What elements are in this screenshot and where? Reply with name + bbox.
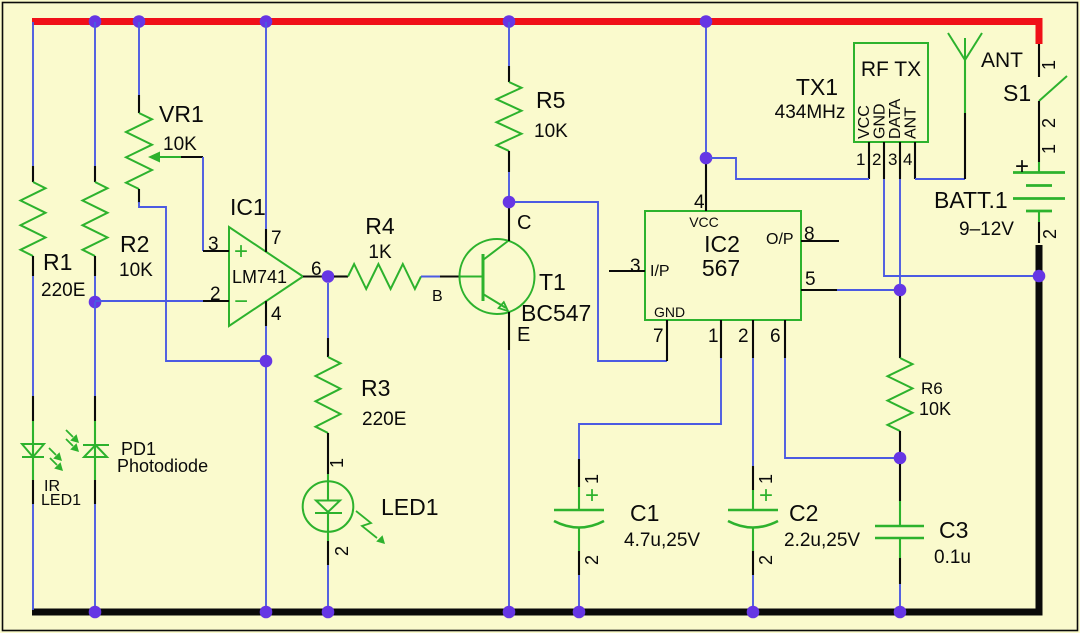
- svg-text:E: E: [517, 324, 530, 346]
- junction dot PD1 on ground rail: [89, 606, 102, 619]
- junction dot R5 on VCC rail: [503, 15, 516, 28]
- junction dot C1 on ground rail: [573, 606, 586, 619]
- svg-text:S1: S1: [1003, 80, 1031, 106]
- svg-text:IC2: IC2: [704, 231, 740, 257]
- svg-text:4: 4: [903, 150, 912, 169]
- IC1 pin 4 stub: [266, 301, 282, 326]
- wire IC1 pin 7 to VCC rail: [265, 22, 267, 229]
- wire PD1 to ground rail: [94, 504, 96, 610]
- svg-text:7: 7: [271, 228, 282, 249]
- junction dot IC1 output node: [322, 270, 335, 283]
- svg-text:−: −: [234, 288, 248, 315]
- wire TX1 ANT to antenna: [915, 178, 965, 180]
- svg-text:R5: R5: [536, 87, 565, 113]
- junction dot C3 on ground rail: [894, 606, 907, 619]
- resistor R5 10K: [497, 66, 569, 172]
- junction dot IC1 pin4 on ground rail: [260, 606, 273, 619]
- svg-text:R6: R6: [921, 379, 943, 398]
- IC2 pin 1 stub: [708, 320, 721, 358]
- IC2 pin 6 stub: [770, 320, 785, 358]
- wire IC2 pin 1 to C1: [579, 358, 721, 459]
- wire IC2 pin 6 to R6 bottom node: [785, 358, 894, 458]
- svg-text:6: 6: [311, 259, 322, 280]
- TX1 pin 3 stub (DATA): [888, 142, 900, 179]
- junction dot R2 / pin2 node: [89, 296, 102, 309]
- battery BATT.1 9-12V: [934, 153, 1065, 240]
- junction dot IC1 pin4 / VR1 node: [260, 355, 273, 368]
- junction dot C2 on ground rail: [747, 606, 760, 619]
- svg-text:+: +: [759, 482, 773, 509]
- svg-text:4: 4: [694, 192, 705, 213]
- wire TX1 VCC to IC2 VCC node: [710, 158, 869, 179]
- svg-text:7: 7: [653, 326, 664, 347]
- svg-text:I/P: I/P: [650, 263, 670, 280]
- svg-text:ANT: ANT: [903, 107, 920, 139]
- switch S1: [1003, 44, 1067, 106]
- TX1 pin 1 stub (VCC): [856, 142, 869, 179]
- svg-text:10K: 10K: [163, 134, 197, 155]
- svg-text:+: +: [585, 482, 599, 509]
- svg-text:GND: GND: [872, 103, 889, 139]
- svg-text:Photodiode: Photodiode: [117, 456, 208, 476]
- svg-text:+: +: [1015, 153, 1029, 180]
- wire T1 emitter: [508, 312, 510, 350]
- wire VR1 wiper to IC1 pin 3: [202, 157, 204, 251]
- wire IC2 pin 4 to VCC rail: [705, 22, 707, 153]
- resistor R6 10K: [888, 296, 952, 453]
- capacitor C3 0.1u (ceramic): [875, 464, 971, 584]
- svg-text:VR1: VR1: [159, 101, 204, 127]
- svg-text:+: +: [234, 238, 248, 265]
- junction dot R6 bottom node: [894, 452, 907, 465]
- wire R2 to VCC rail: [94, 22, 96, 166]
- capacitor C2 2.2u,25V (electrolytic): [728, 466, 860, 575]
- svg-text:R2: R2: [120, 231, 149, 257]
- junction dot R2 top on VCC rail: [89, 15, 102, 28]
- svg-text:2: 2: [1040, 229, 1060, 239]
- svg-text:R4: R4: [365, 213, 395, 239]
- wire TX1 GND to ground rail: [884, 179, 1035, 276]
- svg-text:C: C: [517, 212, 531, 234]
- svg-text:10K: 10K: [919, 399, 951, 419]
- label TX1 434MHz: [775, 74, 846, 123]
- LED LED1: [303, 474, 439, 544]
- svg-text:1: 1: [1039, 60, 1059, 70]
- junction dot IC1 pin 7 on VCC rail: [260, 15, 273, 28]
- wire collector node to IC2 pin 7: [515, 202, 667, 361]
- junction dot IC2 pin4 on VCC rail: [700, 15, 713, 28]
- svg-text:3: 3: [888, 150, 897, 169]
- svg-text:LED1: LED1: [381, 494, 439, 520]
- op-amp IC1 LM741: [229, 194, 303, 326]
- svg-text:1: 1: [1039, 144, 1059, 154]
- VCC rail right corner drop: [1036, 22, 1043, 45]
- svg-text:IC1: IC1: [230, 194, 266, 220]
- IC2 pin 3 stub (I/P): [609, 256, 645, 277]
- wire R1 to VCC rail: [32, 22, 34, 166]
- svg-text:2: 2: [872, 150, 881, 169]
- IC1 pin 2 stub: [203, 284, 229, 305]
- IC2 pin 5 stub: [801, 269, 837, 290]
- svg-text:4.7u,25V: 4.7u,25V: [624, 530, 700, 551]
- wire T1 collector: [508, 208, 510, 241]
- svg-text:R3: R3: [361, 375, 390, 401]
- wire R5 to collector node: [508, 172, 510, 197]
- svg-text:ANT: ANT: [981, 49, 1023, 72]
- IC IC2 567 tone decoder: [645, 211, 801, 320]
- wire junction to PD1: [94, 302, 96, 396]
- svg-text:9–12V: 9–12V: [959, 219, 1014, 240]
- LED1 pin 2 lead: [328, 532, 352, 565]
- junction dot collector node: [503, 196, 516, 209]
- VCC power rail (red, top): [32, 18, 1043, 25]
- svg-text:10K: 10K: [119, 260, 153, 281]
- junction dot GND wire on ground rail: [1033, 270, 1046, 283]
- svg-text:2: 2: [582, 555, 602, 565]
- svg-text:1: 1: [582, 474, 602, 484]
- svg-text:5: 5: [805, 269, 816, 290]
- wire C1 to ground rail: [578, 575, 580, 610]
- svg-text:1: 1: [327, 458, 347, 468]
- svg-text:RF TX: RF TX: [861, 58, 921, 81]
- resistor R3 220E: [316, 338, 407, 452]
- svg-text:4: 4: [271, 304, 282, 325]
- RF transmitter module TX1 RF TX: [854, 43, 928, 142]
- junction dot VR1 on VCC rail: [133, 15, 146, 28]
- svg-text:220E: 220E: [41, 280, 85, 301]
- svg-text:2: 2: [738, 326, 749, 347]
- TX1 pin 4 stub (ANT): [903, 142, 915, 179]
- IC2 pin 8 stub (O/P): [801, 224, 839, 245]
- wire IC2 pin 2 to C2: [752, 358, 754, 466]
- IC2 pin 4 stub: [694, 164, 706, 213]
- svg-text:2: 2: [1039, 118, 1059, 128]
- IC1 pin 7 stub: [266, 228, 282, 252]
- potentiometer VR1 10K: [126, 95, 204, 203]
- IC1 pin 6 output stub: [303, 259, 322, 280]
- wire R5 to VCC rail: [508, 22, 510, 66]
- wire C3 to ground rail: [899, 584, 901, 610]
- svg-text:BATT.1: BATT.1: [934, 187, 1008, 213]
- wire R2 bottom to junction: [94, 276, 96, 302]
- ground rail (black, bottom and right): [32, 245, 1039, 612]
- LED1 pin 1 lead: [327, 452, 347, 474]
- battery pin 2 lead: [1039, 211, 1060, 243]
- antenna ANT: [948, 33, 1023, 179]
- wire R4 to T1 base: [421, 276, 440, 278]
- IR LED1 (infrared emitter diode): [22, 396, 81, 509]
- svg-text:B: B: [432, 288, 443, 305]
- svg-text:O/P: O/P: [766, 231, 794, 248]
- svg-text:2: 2: [756, 555, 776, 565]
- junction dot DATA / pin5 node: [894, 284, 907, 297]
- svg-text:TX1: TX1: [796, 74, 838, 100]
- svg-text:8: 8: [804, 224, 815, 245]
- IC2 pin 2 stub: [738, 320, 753, 358]
- svg-text:BC547: BC547: [521, 300, 591, 326]
- wire IC2 pin 5 to DATA node: [837, 289, 894, 291]
- wire VR1 to VCC rail: [138, 22, 140, 95]
- resistor R2 10K: [83, 166, 154, 281]
- svg-text:GND: GND: [654, 304, 685, 320]
- svg-text:10K: 10K: [534, 121, 568, 142]
- svg-text:C3: C3: [939, 517, 968, 543]
- svg-text:C2: C2: [789, 500, 818, 526]
- svg-text:1: 1: [756, 474, 776, 484]
- resistor R4 1K: [334, 213, 421, 289]
- wire VR1 bottom to IC1 pin4 node: [139, 202, 266, 361]
- wire LED1 to ground rail: [327, 565, 329, 610]
- wire S1 to battery: [1039, 101, 1059, 172]
- svg-text:434MHz: 434MHz: [775, 102, 846, 123]
- wire IC1 output to R3: [327, 283, 329, 338]
- transistor T1 BC547: [432, 212, 591, 346]
- svg-text:DATA: DATA: [887, 98, 904, 139]
- svg-text:LED1: LED1: [41, 492, 81, 509]
- photodiode PD1: [66, 396, 208, 504]
- svg-text:6: 6: [770, 326, 781, 347]
- svg-text:3: 3: [630, 256, 641, 277]
- svg-text:2: 2: [210, 284, 221, 305]
- wire C2 to ground rail: [752, 575, 754, 610]
- svg-text:2.2u,25V: 2.2u,25V: [784, 530, 860, 551]
- junction dot LED1 on ground rail: [322, 606, 335, 619]
- svg-text:C1: C1: [630, 500, 659, 526]
- svg-text:3: 3: [208, 234, 219, 255]
- TX1 pin 2 stub (GND): [872, 142, 884, 179]
- junction dot T1 emitter on ground rail: [503, 606, 516, 619]
- wire IR LED1 to ground rail: [32, 504, 34, 610]
- svg-text:R1: R1: [43, 249, 72, 275]
- junction dot IC2 VCC node: [700, 152, 713, 165]
- svg-text:2: 2: [332, 546, 352, 556]
- svg-text:220E: 220E: [362, 409, 406, 430]
- svg-text:1: 1: [856, 150, 865, 169]
- svg-text:VCC: VCC: [856, 105, 873, 139]
- svg-text:LM741: LM741: [232, 267, 287, 287]
- svg-text:1: 1: [708, 326, 719, 347]
- svg-text:VCC: VCC: [689, 214, 719, 230]
- svg-text:567: 567: [702, 255, 740, 281]
- wire IC1 pin 4 to ground rail: [265, 326, 267, 610]
- wire TX1 DATA to pin5 node: [899, 179, 901, 285]
- wire R1 to IR LED1: [32, 276, 34, 396]
- svg-text:T1: T1: [539, 269, 566, 295]
- svg-text:1K: 1K: [368, 242, 392, 263]
- svg-text:0.1u: 0.1u: [934, 547, 971, 568]
- wire IC1 pin 2 from R2 junction: [95, 300, 203, 302]
- IC1 pin 3 stub: [203, 234, 229, 255]
- capacitor C1 4.7u,25V (electrolytic): [554, 459, 700, 575]
- IC2 pin 7 stub (GND): [653, 320, 667, 361]
- resistor R1 220E: [21, 166, 86, 301]
